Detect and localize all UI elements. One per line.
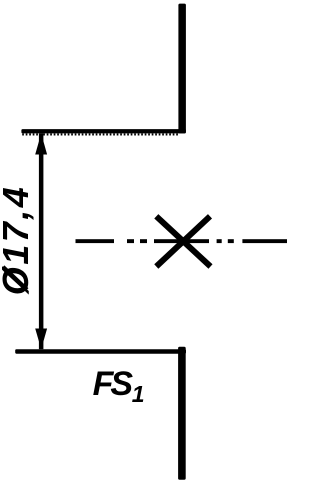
wire centerline left dot 1 — [127, 239, 134, 243]
node arrowhead bottom — [35, 329, 47, 350]
wire lower vertical edge — [178, 347, 186, 480]
wire centerline right dot 2 — [228, 239, 234, 243]
svg-text:1: 1 — [132, 381, 145, 407]
wire upper shoulder horizontal edge — [21, 129, 186, 133]
wire upper vertical edge — [178, 4, 186, 134]
wire dimension line — [39, 133, 44, 349]
node arrowhead top — [35, 133, 47, 154]
wire centerline left dot 2 — [140, 239, 147, 243]
wire centerline right dot 1 — [217, 239, 222, 243]
node diameter symbol slash thickening — [3, 267, 27, 290]
svg-text:FS: FS — [93, 365, 134, 403]
node center mark X diagonal 1 — [156, 216, 210, 266]
wire lower shoulder horizontal edge — [15, 349, 186, 354]
wire centerline right long dash — [242, 239, 287, 243]
wire centerline middle segment — [154, 239, 209, 243]
node center mark X diagonal 2 — [156, 216, 210, 266]
wire serrated surface under shoulder — [22, 133, 178, 135]
wire centerline left long dash — [76, 239, 115, 243]
